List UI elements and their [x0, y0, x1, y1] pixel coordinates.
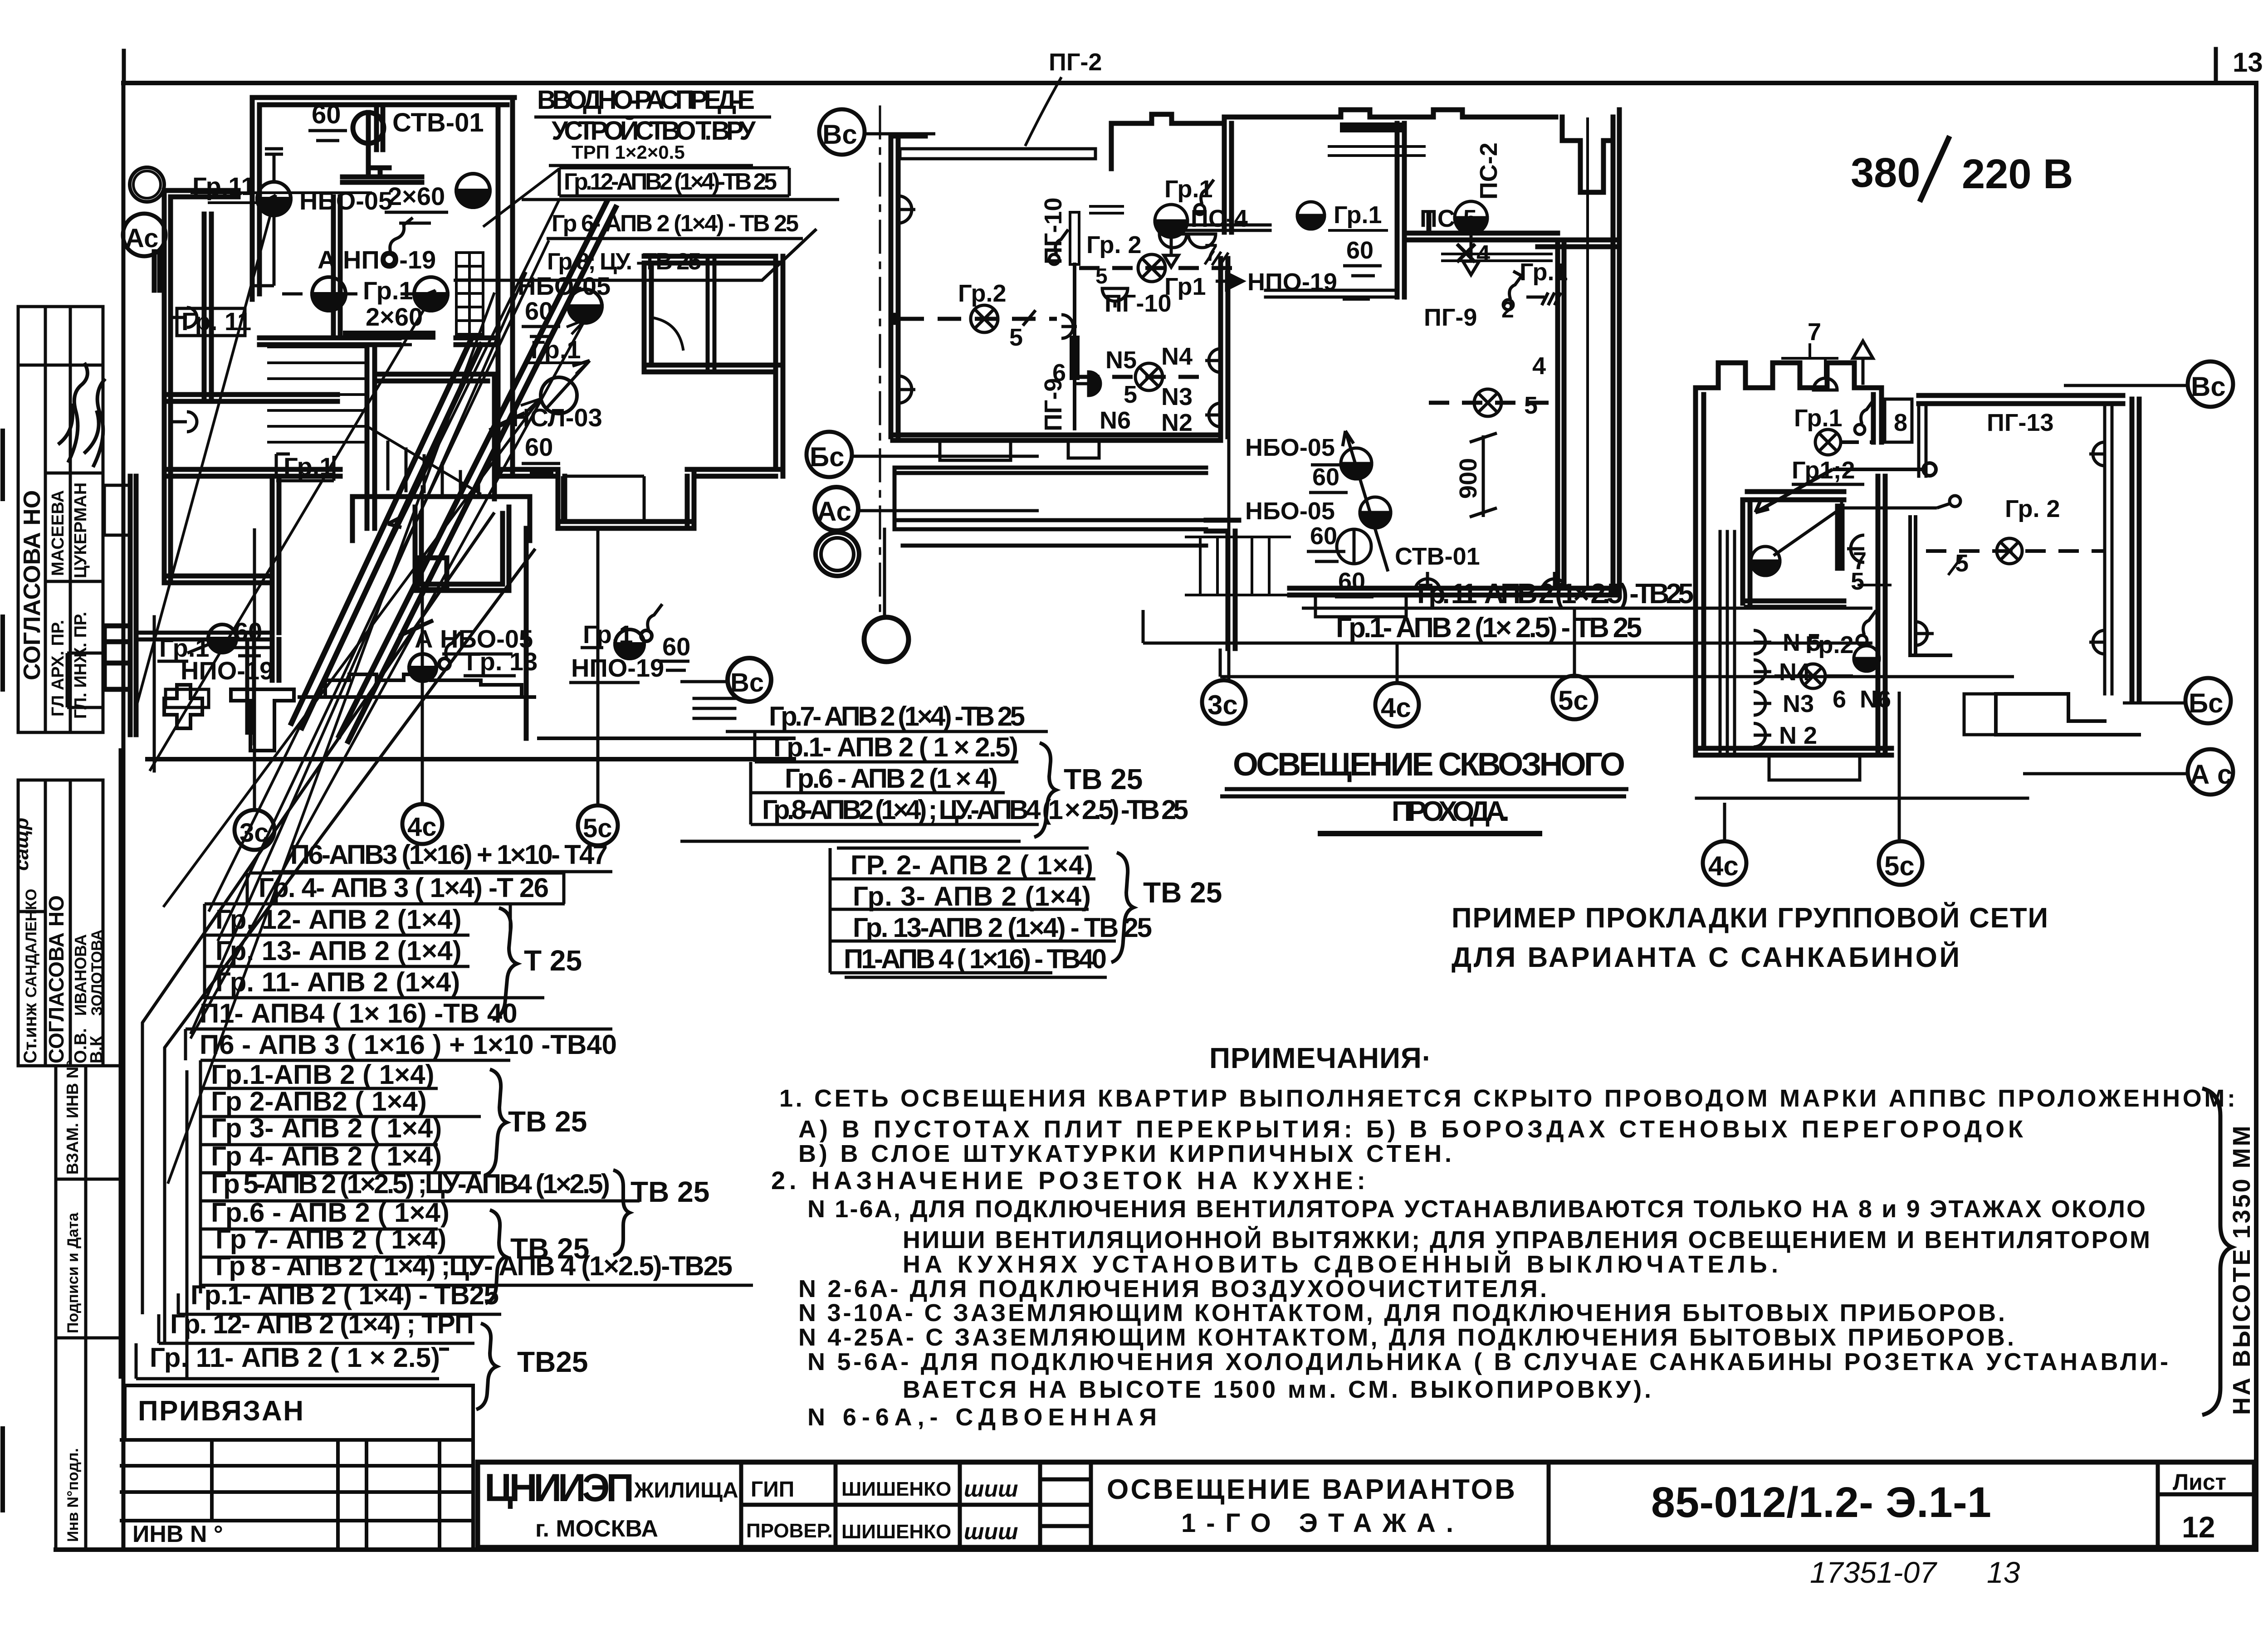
wall room B bottom — [164, 469, 340, 476]
brace ТВ25 mid2 — [1111, 853, 1134, 962]
signature scribble 1 — [58, 363, 88, 463]
column circle 3c mid — [1202, 680, 1246, 724]
svg-text:Гр.1: Гр.1 — [1794, 405, 1843, 432]
svg-text:Вс: Вс — [730, 668, 764, 697]
outer wall stub below — [153, 617, 156, 771]
black partition segment — [1070, 341, 1080, 375]
window sill top middle — [1442, 254, 1551, 261]
svg-text:Подписи и Дата: Подписи и Дата — [64, 1212, 82, 1333]
svg-text:Гр. 2: Гр. 2 — [1086, 231, 1142, 259]
svg-text:ПГ-9: ПГ-9 — [1424, 304, 1477, 331]
pendant СТВ-01 mid — [1337, 529, 1371, 564]
right unit bottom zigzag — [1996, 694, 2139, 735]
svg-text:5: 5 — [1124, 381, 1137, 408]
привязан box — [125, 1385, 473, 1440]
svg-text:4с: 4с — [407, 812, 437, 842]
svg-text:НБО-05: НБО-05 — [518, 272, 611, 300]
svg-text:Гр 2-АПВ2 ( 1×4): Гр 2-АПВ2 ( 1×4) — [211, 1086, 427, 1117]
frame bottom border — [56, 1547, 2256, 1552]
svg-text:Гр.1: Гр.1 — [531, 335, 581, 364]
svg-text:ЗОЛОТОВА: ЗОЛОТОВА — [88, 929, 106, 1016]
texts middle plan — [958, 49, 1568, 597]
svg-text:Ас: Ас — [817, 496, 851, 527]
pendant top — [1813, 378, 1837, 390]
caption пример прокладки — [1452, 902, 2048, 973]
svg-text:Ас: Ас — [125, 224, 158, 253]
axis centerline — [879, 107, 881, 612]
balcony boxes left — [104, 626, 130, 689]
top-right T protrusion — [1562, 117, 1613, 192]
svg-text:Лист: Лист — [2173, 1469, 2226, 1495]
bottom-left partition — [136, 633, 272, 735]
title inner rows — [741, 1503, 1091, 1507]
svg-text:13: 13 — [1987, 1556, 2020, 1589]
svg-text:г. МОСКВА: г. МОСКВА — [535, 1516, 658, 1542]
dashed circuit living room — [900, 317, 1057, 321]
bottom wall left unit — [1696, 748, 1892, 755]
center room lamp — [1297, 202, 1325, 229]
svg-text:НБО-05: НБО-05 — [1245, 434, 1335, 461]
title col line 4 — [1547, 1462, 1551, 1547]
dashed right room — [1429, 401, 1560, 405]
central partition strip ПГ-10 — [1070, 212, 1079, 264]
small wall stubs near partition — [1090, 206, 1123, 213]
bath cluster left wall — [1224, 123, 1232, 232]
small box lower — [417, 558, 447, 590]
svg-text:ПРИМЕЧАНИЯ·: ПРИМЕЧАНИЯ· — [1209, 1042, 1432, 1074]
luminaire bottom left НПО-19 — [208, 624, 236, 653]
lamps left plan — [171, 149, 662, 681]
bottom protrusions — [1315, 595, 1406, 617]
svg-text:Гр. 11- АПВ 2 (1×4): Гр. 11- АПВ 2 (1×4) — [215, 967, 460, 997]
svg-text:Гр 6- АПВ 2 (1×4) - ТВ 25: Гр 6- АПВ 2 (1×4) - ТВ 25 — [552, 210, 799, 237]
svg-text:N3: N3 — [1161, 383, 1193, 410]
dashed right unit circuit — [1926, 549, 2105, 553]
arrow НПО-19 — [1216, 273, 1243, 289]
heading underline — [1220, 789, 1628, 796]
svg-text:ШИШЕНКО: ШИШЕНКО — [841, 1478, 951, 1500]
svg-text:Гр 8 - АПВ 2 ( 1×4) ;ЦУ- АПВ 4: Гр 8 - АПВ 2 ( 1×4) ;ЦУ- АПВ 4 (1×2.5)-Т… — [215, 1251, 733, 1281]
svg-text:Гр.1: Гр.1 — [1334, 201, 1382, 229]
svg-text:ПГ-2: ПГ-2 — [1049, 49, 1102, 76]
svg-text:СОГЛАСОВА НО: СОГЛАСОВА НО — [44, 895, 68, 1063]
corridor right step — [1206, 520, 1239, 649]
crenellated top — [1696, 363, 1882, 388]
scan edge marks — [0, 431, 5, 1510]
marker Бс mid — [807, 432, 852, 477]
svg-text:Гр. 11- АПВ 2 ( 1 × 2.5): Гр. 11- АПВ 2 ( 1 × 2.5) — [150, 1342, 440, 1373]
signature scribble 2 — [84, 379, 105, 467]
svg-text:Гр. 13-АПВ 2 (1×4) - ТВ 25: Гр. 13-АПВ 2 (1×4) - ТВ 25 — [853, 912, 1152, 943]
title col line 5 — [2156, 1462, 2160, 1547]
corridor band — [894, 468, 1206, 546]
switch hook top — [1056, 229, 1068, 254]
svg-text:N6: N6 — [1100, 407, 1131, 434]
svg-text:ГЛ. ИНЖ. ПР.: ГЛ. ИНЖ. ПР. — [71, 612, 90, 719]
svg-text:900: 900 — [1455, 458, 1482, 499]
svg-text:3с: 3с — [1207, 690, 1238, 720]
room B mid partition — [164, 395, 337, 401]
wire through lamps — [1343, 431, 1388, 571]
stair treads — [269, 347, 367, 442]
svg-text:N6: N6 — [1860, 686, 1891, 713]
wall spur top middle — [376, 105, 383, 150]
top rail double ПГ-2 — [900, 149, 1095, 159]
svg-text:ПС-2: ПС-2 — [1475, 142, 1502, 200]
door block 8 — [1885, 399, 1912, 442]
leader arrow 5 — [209, 200, 559, 912]
window hatch right — [694, 698, 735, 718]
svg-text:ПРОВЕР.: ПРОВЕР. — [746, 1520, 833, 1542]
stack row lines — [272, 870, 612, 873]
leader 3c left — [253, 528, 256, 810]
svg-text:ГИП: ГИП — [751, 1478, 794, 1502]
svg-text:А НПО-19: А НПО-19 — [318, 245, 436, 274]
corridor right wall step — [498, 469, 565, 528]
frame right border — [2254, 83, 2258, 1550]
window double line below band — [1329, 146, 1424, 156]
svg-text:ТРП 1×2×0.5: ТРП 1×2×0.5 — [572, 141, 685, 163]
window left — [154, 252, 160, 290]
column circle 5c mid — [1553, 676, 1596, 719]
svg-text:5: 5 — [1009, 324, 1023, 351]
column circle 5c left — [578, 805, 618, 845]
svg-text:Т 25: Т 25 — [524, 944, 582, 977]
marker А с left plan — [123, 214, 166, 256]
vent shaft grid — [456, 253, 483, 334]
column circle 4c right — [1723, 803, 1726, 841]
svg-text:СТВ-01: СТВ-01 — [1395, 543, 1480, 570]
luminaire Гр.1 left — [312, 277, 346, 311]
sockets left wall mid — [898, 196, 915, 223]
svg-text:Гр. 2: Гр. 2 — [2005, 495, 2060, 522]
X mark 4 — [1457, 244, 1475, 262]
lamp kitchen — [1135, 363, 1163, 390]
svg-text:N 4-25А- С ЗАЗЕМЛЯЮЩИМ КОНТАКТ: N 4-25А- С ЗАЗЕМЛЯЮЩИМ КОНТАКТОМ, ДЛЯ ПО… — [798, 1324, 2014, 1351]
right mid vertical wall — [708, 256, 714, 372]
svg-text:НИШИ ВЕНТИЛЯЦИОННОЙ ВЫТЯЖКИ; Д: НИШИ ВЕНТИЛЯЦИОННОЙ ВЫТЯЖКИ; ДЛЯ УПРАВЛЕ… — [903, 1226, 2150, 1254]
right rooms top — [644, 256, 783, 372]
svg-text:N3: N3 — [1783, 690, 1814, 717]
row lines under middle plan — [1302, 607, 1872, 610]
svg-text:Гр.1: Гр.1 — [583, 620, 633, 649]
svg-text:6: 6 — [1833, 686, 1846, 713]
svg-text:ВВОДНО-РАСПРЕД-Е: ВВОДНО-РАСПРЕД-Е — [537, 85, 755, 115]
bottom wall mid — [1290, 588, 1619, 595]
svg-text:5с: 5с — [1558, 685, 1589, 716]
leader 4c left — [421, 485, 424, 805]
svg-text:Гр.1-АПВ 2 ( 1×4): Гр.1-АПВ 2 ( 1×4) — [211, 1059, 435, 1090]
svg-text:Вс: Вс — [822, 119, 857, 150]
svg-text:ПГ-10: ПГ-10 — [1105, 290, 1171, 317]
svg-text:Гр.11: Гр.11 — [192, 172, 255, 200]
svg-text:Гр.8-АПВ2 (1×4) ; ЦУ.-АПВ4 (1: Гр.8-АПВ2 (1×4) ; ЦУ.-АПВ4 (1 × 2.5) -ТВ… — [762, 795, 1188, 825]
half lamp ПГ-9 — [1075, 372, 1100, 395]
wire drops room A — [254, 149, 414, 294]
svg-text:12: 12 — [2182, 1510, 2215, 1544]
svg-text:ЖИЛИЩА: ЖИЛИЩА — [634, 1478, 738, 1502]
door arc right — [651, 317, 683, 349]
dark window band room A — [343, 331, 435, 340]
bath bottom wall — [1161, 225, 1270, 230]
svg-text:60: 60 — [1310, 522, 1337, 550]
svg-text:НПО-19: НПО-19 — [1247, 268, 1337, 296]
T column figure — [231, 689, 294, 751]
svg-text:380: 380 — [1851, 150, 1921, 196]
column circle 4c mid — [1375, 683, 1419, 727]
svg-text:Ст.инж: Ст.инж — [20, 1003, 40, 1063]
landing box — [352, 497, 530, 541]
svg-text:Гр. 11: Гр. 11 — [181, 307, 251, 336]
svg-text:НБО-05: НБО-05 — [1245, 498, 1335, 525]
svg-text:N2: N2 — [1161, 409, 1193, 436]
kitchen right wall — [1221, 259, 1228, 437]
shelf room A — [342, 168, 422, 182]
svg-text:МАСЕЕВА: МАСЕЕВА — [49, 490, 68, 576]
svg-text:4: 4 — [1476, 240, 1490, 268]
right unit inner left wall — [1910, 517, 1950, 655]
svg-text:ГЛ АРХ. ПР.: ГЛ АРХ. ПР. — [49, 620, 68, 717]
svg-text:НПО-19: НПО-19 — [571, 654, 664, 682]
svg-text:8: 8 — [1894, 409, 1907, 436]
svg-text:ДЛЯ ВАРИАНТА С САНКАБИНОЙ: ДЛЯ ВАРИАНТА С САНКАБИНОЙ — [1452, 941, 1960, 973]
dashed circuit kitchen — [1079, 375, 1207, 379]
triangle symbol — [1853, 341, 1873, 383]
svg-text:17351-07: 17351-07 — [1810, 1556, 1937, 1589]
svg-text:N4: N4 — [1779, 658, 1810, 686]
svg-text:НА КУХНЯХ УСТАНОВИТЬ СДВОЕННЫ: НА КУХНЯХ УСТАНОВИТЬ СДВОЕННЫЙ ВЫКЛЮЧАТЕ… — [903, 1250, 1778, 1278]
svg-text:Гр.8; ЦУ. -ТВ 25: Гр.8; ЦУ. -ТВ 25 — [547, 249, 701, 275]
svg-text:СТВ-01: СТВ-01 — [392, 108, 484, 137]
marker Вс left plan — [728, 658, 771, 702]
svg-text:ОСВЕЩЕНИЕ СКВОЗНОГО: ОСВЕЩЕНИЕ СКВОЗНОГО — [1233, 746, 1625, 783]
machine room walls — [376, 374, 494, 499]
svg-text:ЦУКЕРМАН: ЦУКЕРМАН — [71, 483, 90, 578]
right unit top rail — [1919, 395, 2123, 404]
svg-text:2×60: 2×60 — [366, 302, 423, 331]
leader arrow 8 — [168, 293, 494, 1184]
tick marks on runs — [399, 620, 433, 636]
svg-text:НПО-19: НПО-19 — [181, 656, 274, 685]
room divider vertical right — [1873, 388, 1882, 442]
lower right room — [526, 469, 694, 738]
mid room bottom — [1746, 601, 1844, 607]
stamp block 1 box — [18, 307, 103, 732]
svg-text:5: 5 — [1851, 568, 1864, 595]
small box lower-left room — [166, 689, 209, 707]
leader 3c mid — [1227, 429, 1231, 680]
right wall — [1613, 110, 1619, 594]
socket on right unit inner wall — [1916, 622, 1934, 645]
lamp ПС-4 — [1155, 205, 1188, 237]
switch hooks — [390, 218, 413, 254]
bottom stub — [1769, 755, 1860, 780]
svg-text:60: 60 — [662, 632, 690, 661]
axis circle bottom — [864, 617, 909, 662]
corridor thin line — [1586, 119, 1589, 588]
svg-text:N4: N4 — [1161, 343, 1193, 370]
svg-text:Гр.1- АПВ 2 ( 1 × 2.5): Гр.1- АПВ 2 ( 1 × 2.5) — [773, 732, 1018, 762]
svg-text:ПГ-9: ПГ-9 — [1040, 378, 1067, 431]
sheet number tick — [2214, 49, 2218, 83]
svg-text:ПГ-13: ПГ-13 — [1987, 409, 2053, 436]
marker Вс right — [2188, 361, 2233, 407]
title col line 1 — [739, 1462, 743, 1547]
svg-text:Гр.1: Гр.1 — [1164, 176, 1213, 203]
svg-text:НА ВЫСОТЕ 1350 ММ: НА ВЫСОТЕ 1350 ММ — [2228, 1124, 2255, 1415]
leader arrow 1 — [136, 195, 276, 707]
title col line 2 — [1038, 1462, 1042, 1547]
svg-text:Гр1;2: Гр1;2 — [1792, 457, 1855, 484]
diagonal wire — [1774, 501, 1842, 556]
switch right top — [1510, 271, 1523, 299]
right unit left wall partial — [1919, 404, 1926, 476]
mid wall right section — [1538, 240, 1619, 247]
top leader 7 — [1783, 345, 1837, 358]
frame left border — [122, 83, 126, 1550]
lamp Гр.1 right plan — [1815, 429, 1841, 455]
stair lower flight hatch — [369, 428, 480, 493]
svg-text:Гр. 3- АПВ 2 (1×4): Гр. 3- АПВ 2 (1×4) — [853, 881, 1091, 912]
right rooms bottom — [644, 256, 783, 476]
wall room A top — [252, 98, 514, 299]
tick on circuit — [1023, 310, 1036, 326]
svg-text:ТВ 25: ТВ 25 — [1143, 876, 1222, 909]
svg-text:4с: 4с — [1708, 851, 1739, 881]
luminaire НБО-05 corridor — [568, 289, 602, 323]
svg-text:САНДАЛЕНКО: САНДАЛЕНКО — [23, 889, 40, 998]
svg-text:7: 7 — [1204, 239, 1218, 266]
crenellated top wall right part — [1224, 110, 1556, 123]
svg-text:НБО-05: НБО-05 — [299, 186, 392, 215]
right rooms lower wall — [687, 469, 783, 476]
wall room B outer — [164, 190, 238, 583]
svg-text:шиш: шиш — [964, 1519, 1018, 1544]
wall room A right — [498, 98, 513, 473]
svg-text:Инв N°подл.: Инв N°подл. — [64, 1448, 82, 1542]
switch N6 — [1863, 610, 1876, 635]
leader 4c mid — [1396, 643, 1399, 683]
svg-text:ШИШЕНКО: ШИШЕНКО — [841, 1521, 951, 1543]
svg-text:Гр.2: Гр.2 — [958, 280, 1007, 307]
svg-text:Гр.6 - АПВ 2 (1 × 4): Гр.6 - АПВ 2 (1 × 4) — [785, 763, 998, 794]
svg-text:60: 60 — [234, 617, 262, 646]
closet wall room B — [204, 214, 211, 398]
voltage label 380/220 B — [1851, 136, 2073, 202]
lamp right room — [1474, 389, 1501, 416]
svg-text:НСЛ-03: НСЛ-03 — [512, 403, 602, 432]
svg-text:ПГ-10: ПГ-10 — [1040, 198, 1067, 264]
column circle 4c left — [402, 804, 442, 844]
svg-text:N5: N5 — [1105, 346, 1137, 374]
svg-text:П1- АПВ4 ( 1× 16) -ТВ 40: П1- АПВ4 ( 1× 16) -ТВ 40 — [200, 998, 518, 1029]
svg-text:60: 60 — [1346, 237, 1374, 264]
luminaire СТВ-01 — [353, 112, 384, 143]
svg-text:шиш: шиш — [964, 1476, 1018, 1502]
marker Ас right — [2188, 749, 2233, 795]
luminaire НПО-19 bottom right — [615, 629, 644, 658]
title col line 3 — [1089, 1462, 1093, 1547]
brace ТВ25 bottom — [476, 1323, 497, 1410]
svg-text:П6-АПВ3 (1×16) + 1×10- Т47: П6-АПВ3 (1×16) + 1×10- Т47 — [290, 839, 608, 870]
cross figure bottom left — [164, 685, 202, 728]
outer wall lower left — [130, 476, 136, 735]
svg-text:Гр1: Гр1 — [1164, 273, 1206, 300]
junction dot left wall — [890, 314, 899, 323]
svg-text:N 5-6А- ДЛЯ ПОДКЛЮЧЕНИЯ ХОЛОД: N 5-6А- ДЛЯ ПОДКЛЮЧЕНИЯ ХОЛОДИЛЬНИКА ( В… — [807, 1348, 2168, 1375]
brace ТВ25 Гр7 — [485, 1210, 506, 1303]
svg-text:ВЗАМ. ИНВ N°: ВЗАМ. ИНВ N° — [63, 1060, 82, 1175]
socket symbols left wall — [171, 307, 197, 327]
stairs mid plan — [1186, 537, 1290, 595]
circuits middle plan — [890, 180, 1567, 588]
svg-text:85-012/1.2- Э.1-1: 85-012/1.2- Э.1-1 — [1651, 1478, 1991, 1527]
svg-text:Гр.1: Гр.1 — [1520, 259, 1568, 286]
marker Ас mid — [815, 487, 858, 531]
svg-text:60: 60 — [312, 100, 341, 129]
svg-text:2. НАЗНАЧЕНИЕ РОЗЕТОК НА КУХ: 2. НАЗНАЧЕНИЕ РОЗЕТОК НА КУХНЕ: — [771, 1166, 1365, 1195]
svg-text:5: 5 — [1095, 264, 1108, 288]
leader arrow 4 — [191, 320, 585, 1039]
lower table — [120, 1440, 473, 1550]
top edge left — [891, 134, 925, 139]
mid vertical wall lower left — [272, 476, 279, 680]
left outside hooks lower — [67, 653, 104, 707]
svg-text:Бс: Бс — [810, 442, 845, 472]
svg-text:Гр.1: Гр.1 — [363, 276, 413, 305]
svg-text:ПРОХОДА.: ПРОХОДА. — [1392, 796, 1510, 827]
sockets mid partition — [1061, 315, 1077, 338]
svg-text:П1-АПВ 4 ( 1×16) - ТВ40: П1-АПВ 4 ( 1×16) - ТВ40 — [844, 944, 1107, 974]
svg-text:сащр: сащр — [10, 818, 33, 871]
heading underline 2 — [1318, 831, 1542, 836]
svg-text:Гр.1: Гр.1 — [283, 452, 334, 481]
leader arrow 3 — [163, 399, 540, 907]
bottom edge of plan — [147, 757, 794, 761]
leader 5c mid — [1573, 608, 1576, 676]
basin arcs — [1159, 234, 1216, 248]
inner room lower — [415, 507, 509, 590]
svg-text:ТВ 25: ТВ 25 — [631, 1176, 709, 1208]
switch hook bath — [1201, 180, 1214, 204]
inner room upper box — [1747, 492, 1844, 568]
left wall — [891, 136, 898, 437]
dashed circuit bath row — [1079, 266, 1239, 270]
svg-text:13: 13 — [2233, 47, 2263, 78]
black lamp mid — [1751, 546, 1780, 576]
switch top right plan — [1861, 400, 1874, 424]
svg-text:60: 60 — [1312, 463, 1339, 491]
wire into plan top — [1755, 469, 1833, 512]
lamps НБО-05 pair bottom — [1341, 448, 1372, 479]
left wall double — [1696, 388, 1704, 755]
svg-text:N 1-6А, ДЛЯ ПОДКЛЮЧЕНИЯ ВЕНТИ: N 1-6А, ДЛЯ ПОДКЛЮЧЕНИЯ ВЕНТИЛЯТОРА УСТА… — [807, 1195, 2146, 1223]
wall room B inner — [333, 197, 340, 338]
center room bottom wall — [1266, 290, 1397, 297]
svg-text:60: 60 — [525, 297, 553, 325]
svg-text:Гр.12-АПВ2 (1×4)-ТВ 25: Гр.12-АПВ2 (1×4)-ТВ 25 — [564, 169, 777, 195]
lamp Гр.2 left unit — [1801, 664, 1825, 688]
svg-text:60: 60 — [525, 433, 553, 461]
title block outer box — [478, 1462, 2254, 1547]
frame top border — [123, 81, 2256, 85]
luminaire НБО-05 room A right — [456, 174, 490, 207]
svg-text:А с: А с — [2190, 759, 2232, 790]
right unit right wall — [2132, 399, 2139, 701]
stack left nested leaders — [142, 512, 494, 1314]
bottom right inner box — [562, 476, 644, 522]
sockets bottom right room — [1415, 572, 1440, 588]
